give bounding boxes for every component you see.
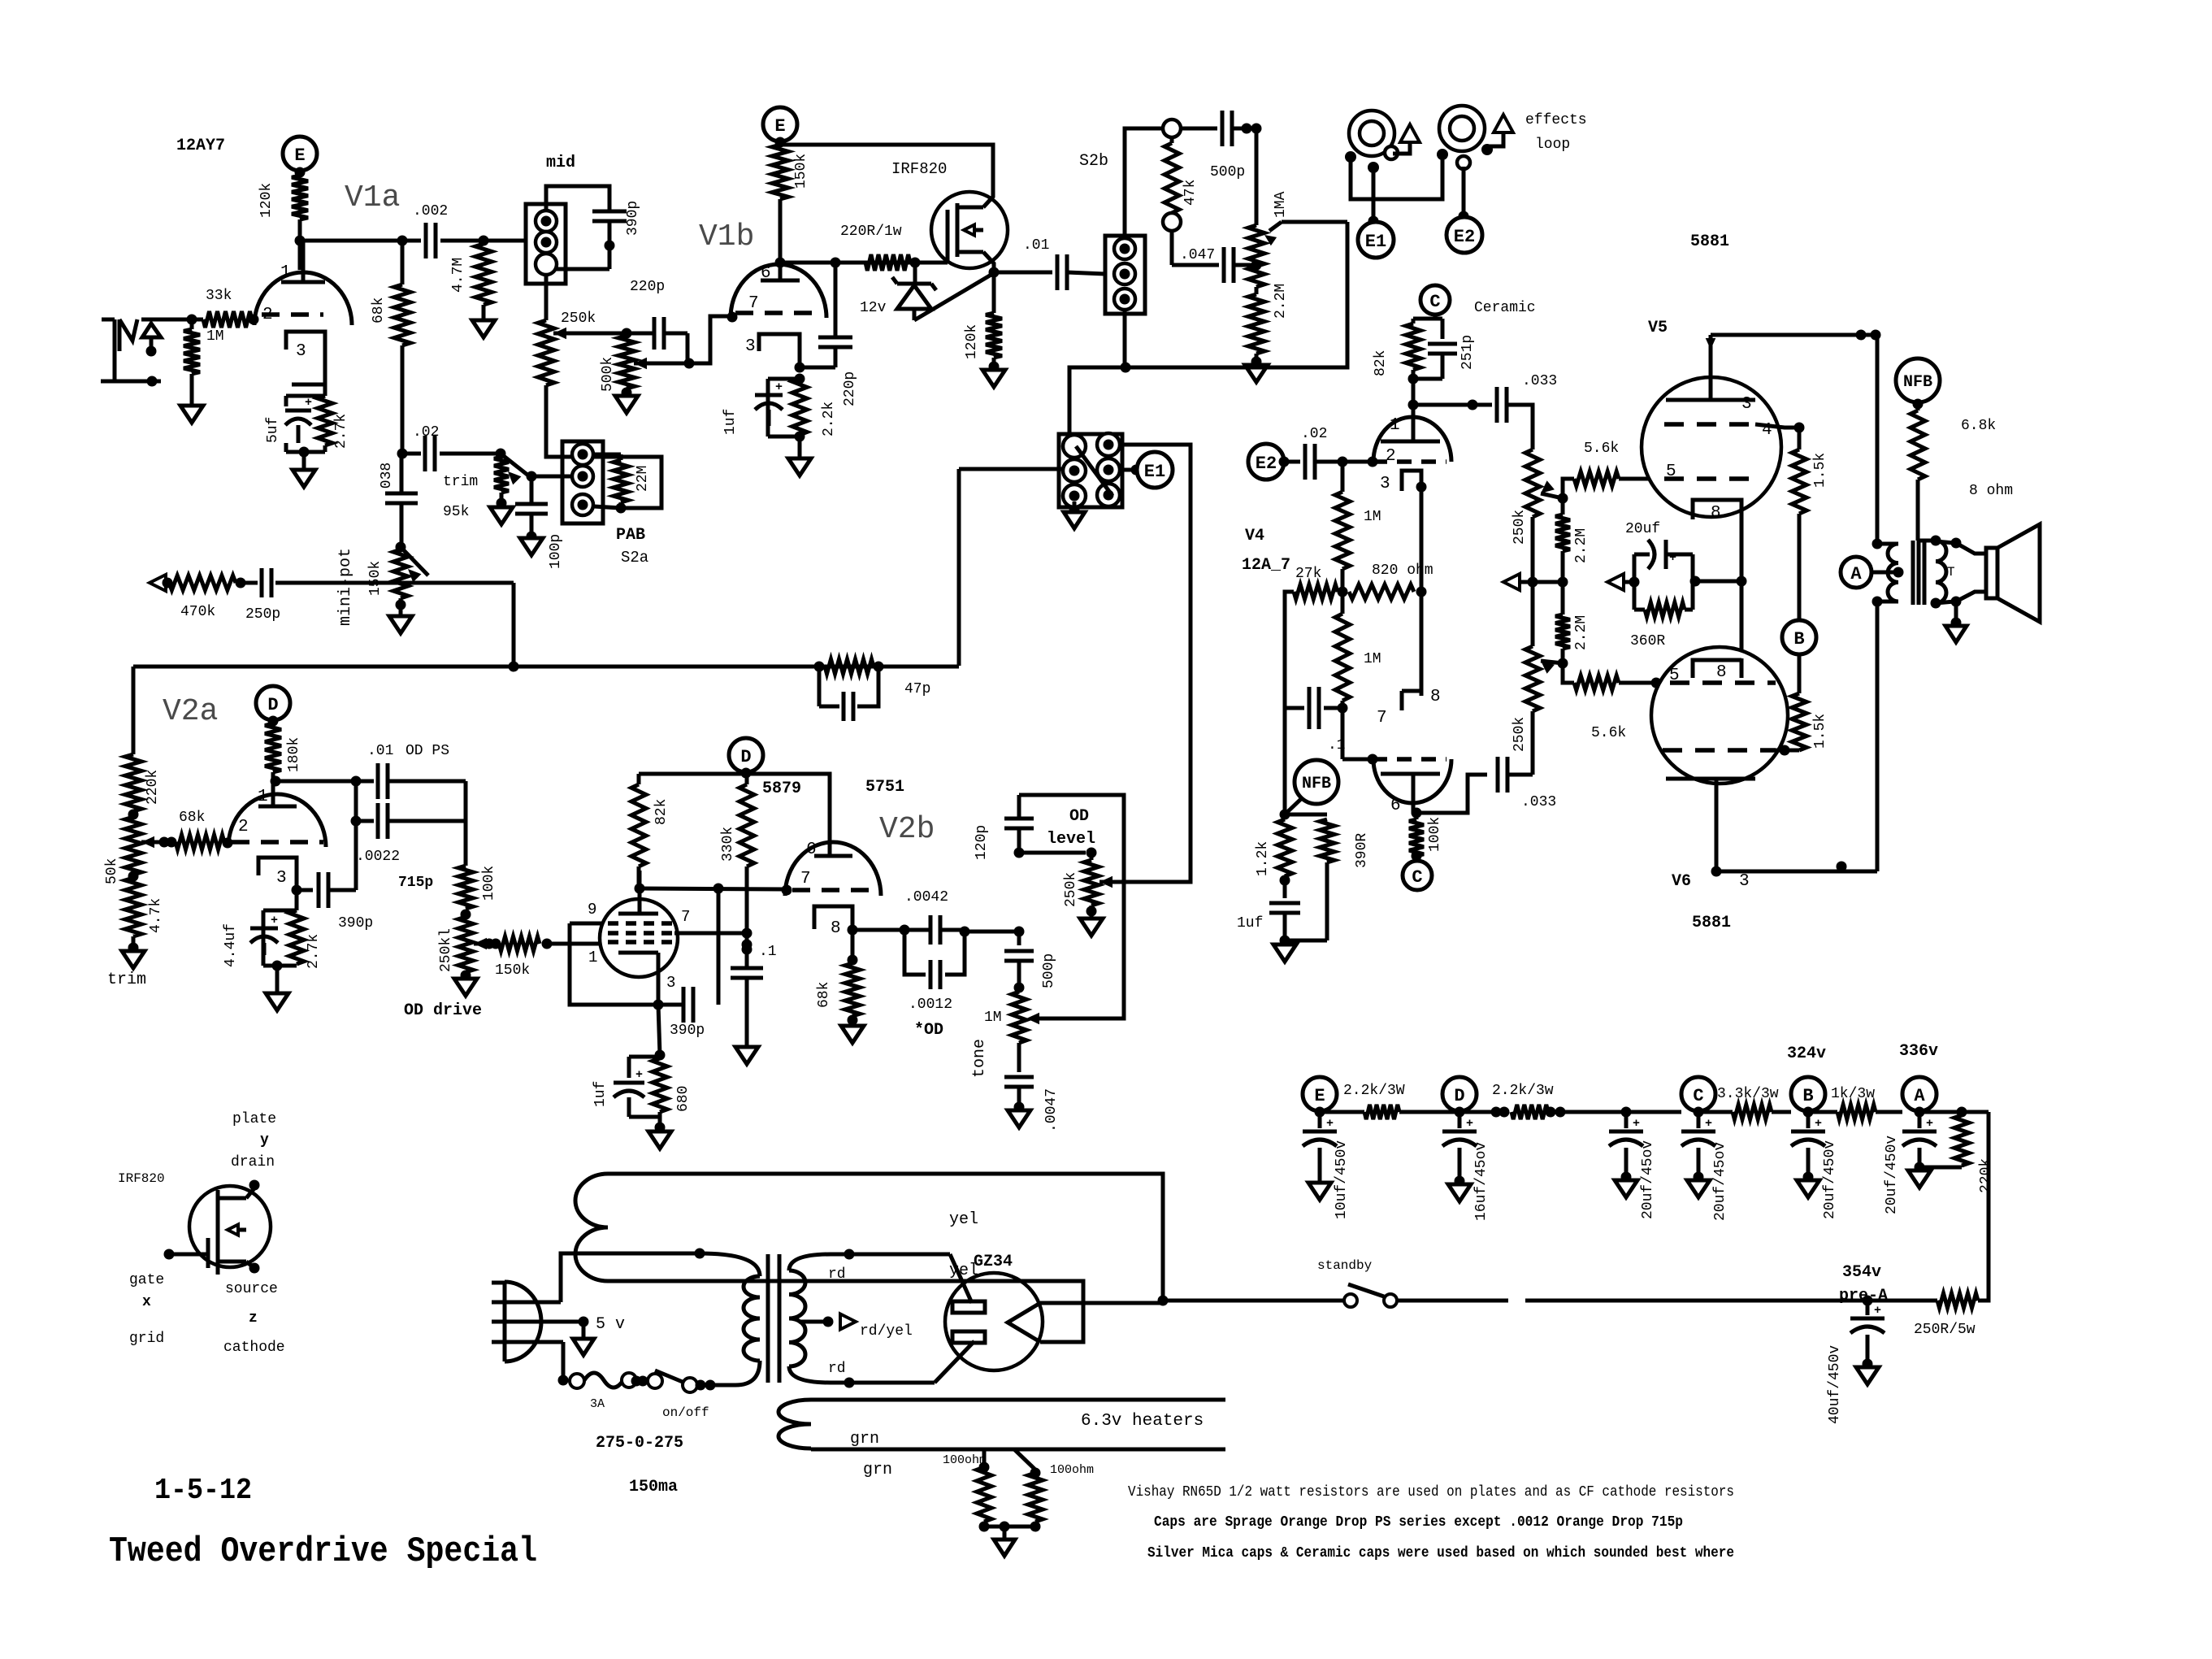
svg-text:IRF820: IRF820 bbox=[118, 1171, 165, 1186]
svg-text:3: 3 bbox=[296, 342, 306, 361]
wire input to 33k bbox=[141, 318, 203, 322]
ground (AC center) bbox=[579, 1317, 589, 1327]
capacitor .02 (V4) bbox=[1284, 460, 1300, 464]
resistor 220R/1w bbox=[865, 254, 910, 271]
svg-text:7: 7 bbox=[748, 294, 759, 313]
svg-text:150k: 150k bbox=[793, 154, 809, 189]
svg-text:C: C bbox=[1429, 292, 1440, 312]
capacitor .033 (V4a) bbox=[1495, 387, 1499, 423]
svg-text:4.4uf: 4.4uf bbox=[223, 923, 239, 967]
svg-text:mid: mid bbox=[546, 154, 575, 172]
svg-text:V2b: V2b bbox=[879, 812, 935, 847]
svg-text:82k: 82k bbox=[653, 799, 670, 825]
svg-text:cathode: cathode bbox=[223, 1340, 285, 1356]
svg-text:2.2k: 2.2k bbox=[821, 402, 837, 436]
capacitor 220p (V1b cathode) bbox=[834, 263, 838, 337]
svg-text:2: 2 bbox=[1386, 447, 1396, 466]
capacitor 390p (V2a) bbox=[297, 888, 313, 892]
wire V6 screen bbox=[1776, 749, 1799, 753]
capacitor .01 (OD PS) bbox=[376, 763, 380, 799]
svg-text:NFB: NFB bbox=[1903, 373, 1932, 392]
svg-text:100ohm: 100ohm bbox=[943, 1453, 987, 1467]
resistor 1.2k bbox=[1283, 708, 1287, 814]
svg-text:tone: tone bbox=[970, 1039, 989, 1078]
svg-text:150k: 150k bbox=[495, 962, 530, 979]
svg-text:324v: 324v bbox=[1787, 1044, 1826, 1063]
ground (1M) bbox=[180, 406, 203, 423]
svg-text:gate: gate bbox=[129, 1272, 164, 1288]
wire screen to .1 node bbox=[674, 932, 747, 936]
ground (5879 cathode) bbox=[648, 1131, 671, 1149]
arrow (bias) bbox=[1607, 574, 1624, 590]
resistor 1M (V4 #1) bbox=[1341, 462, 1345, 492]
wire switch to OD box bbox=[1120, 445, 1191, 882]
svg-text:100ohm: 100ohm bbox=[1050, 1463, 1094, 1477]
ground (speaker) bbox=[1954, 601, 1958, 623]
svg-text:20uf/450v: 20uf/450v bbox=[1884, 1136, 1900, 1214]
pot 1MA bbox=[1255, 128, 1259, 225]
svg-text:4.7M: 4.7M bbox=[450, 258, 466, 293]
svg-text:6: 6 bbox=[761, 264, 771, 283]
svg-text:.038: .038 bbox=[379, 463, 395, 497]
resistor 2.2M (PI #1) bbox=[1561, 498, 1565, 515]
ground (OD level) bbox=[1080, 919, 1103, 936]
node E (V1a supply) bbox=[283, 137, 317, 171]
svg-text:2: 2 bbox=[238, 818, 249, 836]
svg-text:8: 8 bbox=[1430, 688, 1441, 706]
wire rail to C bbox=[1626, 1110, 1681, 1114]
wire 47k to .047 bbox=[1170, 231, 1174, 265]
switch on/off bbox=[648, 1374, 662, 1388]
resistor 1M (V4 #2) bbox=[1335, 614, 1350, 701]
svg-text:470k: 470k bbox=[180, 604, 215, 620]
svg-text:6: 6 bbox=[1390, 797, 1401, 815]
svg-text:1-5-12: 1-5-12 bbox=[154, 1474, 252, 1507]
switch effects loop DPDT bbox=[1059, 434, 1122, 507]
svg-text:+: + bbox=[775, 380, 783, 394]
svg-text:220k: 220k bbox=[1978, 1158, 1994, 1193]
resistor 1.5k (V6) bbox=[1798, 655, 1802, 693]
svg-text:220R/1w: 220R/1w bbox=[840, 224, 902, 240]
svg-text:OD PS: OD PS bbox=[406, 743, 449, 759]
wire V6 plate to OT bbox=[1716, 870, 1877, 874]
svg-text:1: 1 bbox=[258, 788, 268, 806]
svg-text:trim: trim bbox=[443, 474, 478, 490]
ground (V1b cathode) bbox=[788, 458, 811, 476]
svg-text:S2b: S2b bbox=[1079, 152, 1108, 171]
node D (V2a supply) bbox=[256, 686, 290, 720]
svg-text:+: + bbox=[1926, 1117, 1933, 1131]
node A (OT center tap) bbox=[1841, 557, 1872, 588]
wire V5 screen to B bbox=[1755, 424, 1799, 428]
svg-text:40uf/450v: 40uf/450v bbox=[1827, 1345, 1843, 1424]
svg-text:trim: trim bbox=[107, 971, 146, 989]
resistor 6.8k bbox=[1916, 402, 1920, 410]
svg-text:100k: 100k bbox=[1427, 817, 1443, 852]
svg-text:250k: 250k bbox=[1063, 872, 1079, 907]
wire yel 1 bbox=[608, 1174, 1163, 1301]
capacitor .038 bbox=[400, 454, 404, 493]
ground (250k1) bbox=[454, 979, 477, 996]
wire 5879 loop bbox=[570, 922, 605, 926]
svg-text:loop: loop bbox=[1535, 137, 1570, 153]
svg-text:250p: 250p bbox=[245, 606, 280, 623]
svg-text:.047: .047 bbox=[1180, 247, 1215, 263]
svg-text:8: 8 bbox=[1716, 663, 1727, 682]
svg-text:820 ohm: 820 ohm bbox=[1372, 562, 1433, 579]
svg-text:+: + bbox=[1874, 1304, 1881, 1318]
svg-text:E: E bbox=[774, 116, 785, 137]
op V1a triode bbox=[254, 272, 352, 325]
svg-text:8: 8 bbox=[1711, 504, 1721, 523]
switch PAB S2a (3 contacts) bbox=[562, 441, 603, 523]
node A (PS) bbox=[1902, 1077, 1937, 1111]
svg-text:V5: V5 bbox=[1648, 319, 1668, 337]
resistor 100ohm (2) bbox=[1014, 1449, 1035, 1470]
wire V4a plate node bbox=[1412, 379, 1416, 405]
svg-text:D: D bbox=[1454, 1086, 1464, 1106]
svg-text:2.2M: 2.2M bbox=[1573, 528, 1590, 563]
wire cathode node bbox=[795, 363, 805, 373]
node NFB (output) bbox=[1896, 358, 1940, 402]
svg-text:.02: .02 bbox=[413, 424, 439, 441]
svg-text:5881: 5881 bbox=[1690, 232, 1729, 251]
svg-text:NFB: NFB bbox=[1302, 775, 1331, 793]
node D (5879 supply) bbox=[729, 738, 763, 772]
resistor 250R/5w bbox=[1937, 1293, 1978, 1308]
svg-text:360R: 360R bbox=[1630, 633, 1665, 649]
svg-text:V2a: V2a bbox=[163, 694, 218, 729]
svg-text:5: 5 bbox=[1666, 463, 1676, 481]
svg-text:1: 1 bbox=[588, 949, 597, 966]
svg-text:2.2k/3w: 2.2k/3w bbox=[1492, 1083, 1554, 1099]
svg-text:rd/yel: rd/yel bbox=[860, 1323, 913, 1340]
svg-text:.01: .01 bbox=[367, 743, 393, 759]
wire yel 2 bbox=[608, 1281, 1083, 1342]
resistor 2.2M (S2b) bbox=[1255, 287, 1259, 294]
svg-text:95k: 95k bbox=[443, 504, 469, 520]
svg-text:5: 5 bbox=[1669, 667, 1680, 685]
svg-text:level: level bbox=[1047, 830, 1095, 849]
tube V5 5881 bbox=[1642, 377, 1781, 517]
ground (2.2M) bbox=[1245, 365, 1268, 382]
svg-text:1M: 1M bbox=[1364, 651, 1381, 667]
capacitor 100p bbox=[530, 478, 534, 504]
resistor 180k bbox=[265, 723, 281, 772]
svg-text:3: 3 bbox=[1739, 872, 1750, 891]
svg-text:V1b: V1b bbox=[699, 219, 754, 254]
svg-text:3: 3 bbox=[1380, 475, 1390, 493]
svg-text:9: 9 bbox=[588, 901, 596, 919]
svg-text:1.5k: 1.5k bbox=[1812, 714, 1828, 749]
junction dot bbox=[1837, 862, 1847, 872]
wire rail to 250R bbox=[1978, 1112, 1989, 1301]
ground (.0047) bbox=[1008, 1110, 1030, 1127]
node D (V2b plate to 330k top) wire bbox=[745, 888, 749, 890]
node E (PS) bbox=[1303, 1077, 1337, 1111]
op V4a triode bbox=[1373, 417, 1451, 462]
svg-text:grn: grn bbox=[863, 1461, 892, 1479]
svg-text:E2: E2 bbox=[1256, 454, 1277, 474]
node D (PS) bbox=[1442, 1077, 1477, 1111]
svg-text:250k: 250k bbox=[561, 311, 596, 327]
svg-text:250kl: 250kl bbox=[438, 928, 454, 972]
resistor 330k bbox=[745, 774, 749, 784]
ground (4.7k) bbox=[122, 951, 145, 968]
wire V4a to V4b cathode bbox=[1420, 592, 1424, 691]
svg-text:33k: 33k bbox=[206, 288, 232, 304]
svg-text:1M: 1M bbox=[206, 328, 224, 345]
svg-text:5879: 5879 bbox=[762, 780, 801, 798]
capacitor .0012 bbox=[904, 930, 926, 975]
capacitor .1 (screen) bbox=[742, 940, 753, 950]
wire V4b grid bbox=[1342, 758, 1373, 762]
wire AC hot bbox=[561, 1253, 700, 1302]
svg-text:Silver Mica caps & Ceramic cap: Silver Mica caps & Ceramic caps were use… bbox=[1147, 1545, 1734, 1561]
wire plate node V1b bbox=[775, 258, 786, 268]
jack effects send bbox=[1349, 111, 1394, 156]
resistor 5.6k (V6 grid) bbox=[1563, 663, 1574, 683]
svg-text:effects: effects bbox=[1525, 112, 1587, 128]
pot mini-pot 150k bbox=[401, 547, 428, 575]
arrow (to trim) bbox=[150, 575, 166, 591]
svg-text:y: y bbox=[260, 1132, 269, 1149]
pot 250k (PI bottom) bbox=[1531, 582, 1535, 646]
resistor 82k bbox=[639, 772, 747, 776]
resistor 150k bbox=[772, 145, 788, 199]
svg-text:6: 6 bbox=[806, 840, 817, 859]
resistor 3.3k/3w bbox=[1698, 1110, 1733, 1114]
svg-text:Ceramic: Ceramic bbox=[1474, 300, 1536, 316]
svg-text:120k: 120k bbox=[258, 183, 275, 218]
svg-text:5uf: 5uf bbox=[265, 417, 281, 443]
svg-text:D: D bbox=[267, 695, 278, 715]
wire 5879 plate row bbox=[640, 888, 787, 889]
svg-text:B: B bbox=[1793, 629, 1804, 649]
op V2a triode bbox=[228, 794, 326, 847]
ground (NFB) bbox=[1273, 945, 1296, 962]
resistor 47k with jumpers bbox=[1163, 119, 1181, 137]
filter cap 20uf/45ov (1) bbox=[1624, 1112, 1629, 1128]
svg-text:yel: yel bbox=[949, 1262, 978, 1280]
resistor 390R bbox=[1285, 813, 1327, 817]
ground (heaters) bbox=[982, 1522, 987, 1527]
svg-text:.0047: .0047 bbox=[1043, 1088, 1060, 1132]
filter cap 10uf/450v bbox=[1318, 1112, 1322, 1128]
svg-text:4.7k: 4.7k bbox=[148, 898, 164, 933]
svg-text:1uf: 1uf bbox=[722, 409, 739, 435]
transistor IRF820 mosfet follower bbox=[931, 192, 1008, 268]
capacitor 1uf (NFB) bbox=[1283, 876, 1287, 898]
node C (below 100k) bbox=[1415, 856, 1419, 859]
svg-text:5.6k: 5.6k bbox=[1584, 441, 1619, 457]
fuse 3A bbox=[562, 1342, 566, 1380]
ground arrow jack2 bbox=[1494, 115, 1513, 132]
capacitor .01 (to S2b) bbox=[994, 271, 1052, 275]
wire to effects switch bbox=[1069, 367, 1126, 443]
node B (PS) bbox=[1791, 1077, 1825, 1111]
capacitor 500p bbox=[1181, 127, 1217, 131]
op V2b triode bbox=[785, 842, 881, 896]
svg-text:715p: 715p bbox=[398, 875, 433, 891]
svg-text:3: 3 bbox=[745, 337, 756, 356]
capacitor 500p (tone) bbox=[1017, 932, 1021, 945]
cathode network 1uf / 680 (5879) bbox=[658, 1005, 660, 1055]
wire V5 cathode bbox=[1740, 519, 1744, 581]
svg-text:390p: 390p bbox=[338, 915, 373, 932]
svg-text:250k: 250k bbox=[1512, 717, 1528, 752]
svg-text:500p: 500p bbox=[1210, 164, 1245, 180]
pot tone 1M bbox=[1012, 992, 1026, 1043]
svg-text:mini-pot: mini-pot bbox=[336, 548, 355, 626]
capacitor 220p (V1b grid) bbox=[653, 317, 657, 350]
center tap rd/yel bbox=[799, 1320, 828, 1324]
wire rail end bbox=[1919, 1110, 1989, 1114]
transformer power primary bbox=[700, 1253, 760, 1276]
capacitor 390p (mid) bbox=[592, 210, 627, 214]
svg-text:GZ34: GZ34 bbox=[974, 1253, 1013, 1271]
svg-text:220p: 220p bbox=[630, 279, 665, 295]
svg-text:680: 680 bbox=[675, 1086, 692, 1112]
wire NFB to secondary bbox=[1918, 539, 1936, 543]
svg-text:2: 2 bbox=[262, 306, 273, 324]
node E1 (send) bbox=[1131, 465, 1142, 476]
cathode network 1uf / 2.2k (V1b) bbox=[795, 374, 805, 384]
capacitor 47p bbox=[818, 667, 822, 706]
wire V4a cathode bbox=[1420, 487, 1424, 592]
jack effects return bbox=[1439, 106, 1485, 151]
svg-text:180k: 180k bbox=[286, 737, 302, 772]
resistor 120k (source load) bbox=[992, 273, 996, 313]
resistor 100ohm (1) bbox=[982, 1449, 987, 1467]
svg-text:390p: 390p bbox=[625, 201, 641, 236]
svg-text:E1: E1 bbox=[1144, 462, 1165, 482]
svg-text:68k: 68k bbox=[371, 297, 387, 324]
svg-text:V4: V4 bbox=[1245, 527, 1264, 545]
wire rd top bbox=[831, 1253, 950, 1257]
svg-text:1.5k: 1.5k bbox=[1812, 453, 1828, 488]
speaker bbox=[1936, 541, 1954, 543]
capacitor .002 bbox=[424, 223, 428, 258]
svg-text:120k: 120k bbox=[964, 324, 980, 359]
wire bus bbox=[512, 583, 516, 667]
wire to V1b grid bbox=[689, 316, 731, 363]
svg-text:z: z bbox=[249, 1310, 258, 1327]
svg-text:+: + bbox=[1633, 1117, 1640, 1131]
resistor 4.7M bbox=[475, 244, 492, 305]
svg-text:.033: .033 bbox=[1522, 373, 1557, 389]
svg-text:.02: .02 bbox=[1301, 426, 1327, 442]
svg-text:grn: grn bbox=[850, 1430, 879, 1448]
node B bbox=[1782, 620, 1816, 654]
svg-text:.033: .033 bbox=[1521, 794, 1556, 810]
svg-text:*OD: *OD bbox=[914, 1021, 943, 1040]
pot 50k bbox=[125, 817, 141, 875]
node NFB (V4) bbox=[1295, 760, 1338, 804]
capacitor 250p bbox=[241, 581, 258, 585]
resistor 470k bbox=[166, 581, 169, 585]
svg-text:3: 3 bbox=[276, 869, 287, 888]
svg-text:E2: E2 bbox=[1454, 227, 1475, 247]
capacitor .1 (V4) bbox=[1285, 706, 1304, 710]
6.3v winding bbox=[779, 1400, 811, 1448]
svg-text:A: A bbox=[1850, 564, 1862, 584]
filter cap 20uf/45ov (2) bbox=[1697, 1112, 1701, 1128]
svg-text:10uf/450v: 10uf/450v bbox=[1334, 1140, 1350, 1219]
svg-text:.0042: .0042 bbox=[904, 889, 948, 906]
svg-text:12A_7: 12A_7 bbox=[1242, 556, 1290, 575]
svg-text:+: + bbox=[1705, 1117, 1712, 1131]
capacitor .0022 bbox=[354, 781, 358, 821]
resistor 2.2k/3W bbox=[1320, 1110, 1364, 1114]
wire OD box bbox=[1019, 795, 1124, 1018]
svg-text:500k: 500k bbox=[600, 357, 616, 392]
svg-text:x: x bbox=[142, 1294, 151, 1310]
wire PAB bottom to 22M bbox=[594, 506, 621, 508]
svg-text:+: + bbox=[1466, 1117, 1473, 1131]
svg-text:20uf/450v: 20uf/450v bbox=[1822, 1140, 1838, 1219]
resistor 2.2k/3w bbox=[1512, 1105, 1548, 1119]
pot 500k bbox=[622, 328, 632, 339]
svg-text:.002: .002 bbox=[413, 203, 448, 219]
svg-text:OD: OD bbox=[1069, 807, 1089, 826]
svg-text:A: A bbox=[1914, 1086, 1925, 1106]
svg-text:6.3v heaters: 6.3v heaters bbox=[1081, 1412, 1204, 1431]
svg-text:12v: 12v bbox=[860, 300, 887, 316]
capacitor .02 bbox=[402, 452, 421, 456]
svg-text:yel: yel bbox=[949, 1210, 978, 1229]
svg-text:1uf: 1uf bbox=[1237, 915, 1263, 932]
resistor 100k (V4b plate) bbox=[1415, 813, 1419, 819]
resistor 820 ohm bbox=[1349, 584, 1414, 599]
svg-text:plate: plate bbox=[232, 1111, 276, 1127]
ground (120k) bbox=[982, 370, 1005, 387]
node C (V4 supply) bbox=[1420, 285, 1450, 315]
ground (switch) bbox=[1073, 502, 1077, 510]
svg-text:6.8k: 6.8k bbox=[1961, 418, 1996, 434]
node E1 jack bbox=[1372, 167, 1376, 221]
capacitor .0042 bbox=[904, 928, 930, 932]
svg-text:5.6k: 5.6k bbox=[1591, 725, 1626, 741]
svg-text:354v: 354v bbox=[1842, 1263, 1881, 1282]
svg-text:pre-A: pre-A bbox=[1839, 1287, 1888, 1305]
wire to OD level bbox=[965, 930, 1019, 934]
svg-text:12AY7: 12AY7 bbox=[176, 137, 225, 155]
svg-text:150k: 150k bbox=[367, 561, 384, 596]
ground arrow jack1 bbox=[1400, 124, 1420, 142]
svg-text:+: + bbox=[1326, 1117, 1334, 1131]
svg-text:E1: E1 bbox=[1365, 232, 1386, 252]
wire grn 1 bbox=[811, 1398, 1225, 1402]
wire S2b top bbox=[1125, 128, 1163, 238]
svg-text:7: 7 bbox=[800, 870, 811, 888]
ground (100p) bbox=[520, 538, 543, 555]
input jack bbox=[102, 318, 115, 322]
svg-text:.1: .1 bbox=[759, 944, 777, 960]
svg-text:390R: 390R bbox=[1354, 833, 1370, 868]
op V4b triode (inverted) bbox=[1373, 759, 1451, 803]
svg-text:3: 3 bbox=[1741, 395, 1752, 414]
svg-text:E: E bbox=[1314, 1086, 1325, 1106]
svg-text:68k: 68k bbox=[816, 982, 832, 1008]
ground (V2a cathode) bbox=[266, 993, 288, 1010]
node C (PS) bbox=[1681, 1077, 1715, 1111]
svg-text:22M: 22M bbox=[635, 466, 651, 492]
svg-text:S2a: S2a bbox=[621, 549, 648, 567]
wire rd bottom bbox=[831, 1381, 935, 1385]
transformer PT core bbox=[766, 1254, 770, 1383]
diode zener 12v bbox=[913, 263, 917, 284]
